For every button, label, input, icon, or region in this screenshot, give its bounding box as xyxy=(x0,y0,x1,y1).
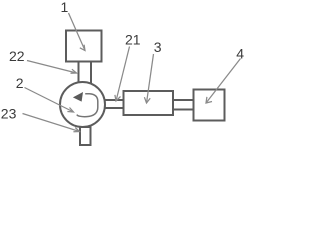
svg-text:22: 22 xyxy=(9,48,25,64)
leader arrow to box 4 xyxy=(206,59,241,104)
leader arrow to connector pipe xyxy=(115,47,130,102)
svg-text:21: 21 xyxy=(125,32,141,48)
leader arrow to circle 2 xyxy=(25,88,74,113)
svg-text:23: 23 xyxy=(1,106,17,122)
box 4 xyxy=(194,90,225,121)
leader arrow to stub 23 xyxy=(23,114,80,132)
stub 23 below circle xyxy=(80,127,91,145)
svg-text:3: 3 xyxy=(154,39,162,55)
svg-text:1: 1 xyxy=(61,0,69,15)
box 3 xyxy=(124,91,174,115)
svg-text:2: 2 xyxy=(16,75,24,91)
rotation arrow inside circle 2 xyxy=(73,92,98,117)
connector pipe between circle 2 and box 3 xyxy=(104,100,124,108)
circle 2 (rotary element) xyxy=(60,82,105,127)
connector 21 pipe between box 1 and circle 2 xyxy=(79,62,92,84)
leader arrow to box 1 xyxy=(69,13,86,51)
box 1 xyxy=(66,31,102,62)
leader arrow to box 3 xyxy=(144,54,153,103)
leader arrow to top connector xyxy=(27,61,77,74)
connector pipe between box 3 and box 4 xyxy=(173,100,194,110)
